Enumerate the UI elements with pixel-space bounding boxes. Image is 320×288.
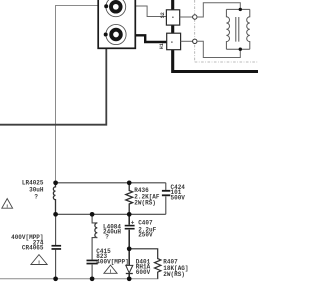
svg-text:CR4065: CR4065 [22,244,44,251]
node E (R436 bottom) [127,212,132,217]
svg-text:S2: S2 [160,12,166,18]
wire pin1 to degauss coil bottom [197,41,240,57]
capacitor CR4065 branch [55,214,57,245]
svg-text:!: ! [6,203,9,210]
svg-text:H1: H1 [159,43,165,49]
boundary dash-dot chassis line [195,0,258,62]
node H (C415 bottom) [90,276,95,281]
node degauss top [239,8,242,11]
wire rail upper (y183) [56,182,166,184]
wire thin from upper fuse to contact box [126,6,167,17]
fuse lower ring [106,24,126,44]
node I (D401 bottom) [127,276,132,281]
node G (bottom rail left) [53,276,58,281]
svg-text:2W(RS): 2W(RS) [134,199,156,206]
svg-text:30uH: 30uH [29,186,44,193]
warning triangle 3 [31,255,47,266]
wire thin top-left L (from fuse to LR4025 node) [56,6,105,183]
svg-text:400V[MPP]: 400V[MPP] [96,259,128,266]
wire thick from lower fuse to contact box [123,35,167,42]
node C (LR4025 bottom) [53,212,58,217]
node lower fuse terminal [104,33,108,37]
node upper fuse terminal [104,4,108,8]
node degauss bottom [239,48,242,51]
wire rail mid (y214) [56,213,166,215]
node B (R436 top) [127,180,132,185]
wire contact to pin 2 [180,16,193,18]
svg-text:!: ! [37,259,40,266]
node F (R407 tap) [127,246,132,251]
contact box H1 [167,33,181,50]
wire mid-left (degauss return to off-page left) [0,36,106,125]
fuse upper ring [106,0,126,17]
pin 2 connector circle [193,15,197,19]
inductor L408 branch wire [92,214,97,223]
node A (LR4025 top) [53,180,58,185]
node D (L408 top) [90,212,95,217]
svg-text:C407: C407 [138,219,153,226]
warning triangle 1 [2,199,13,210]
svg-text:600V: 600V [136,269,151,276]
svg-text:250V: 250V [138,232,153,239]
warning triangle 2 [104,265,117,275]
wire rail bottom (y279) [0,278,158,280]
wire pin2 to degauss coil top [197,3,240,17]
svg-text:+: + [131,219,135,226]
svg-text:500V: 500V [171,194,186,201]
wire thick AC line vertical + horizontal right [173,0,258,72]
resistor R436 [126,183,133,215]
wire contact to pin 1 [181,40,193,42]
pin 1 connector circle [193,39,197,43]
diode D401 [126,265,133,273]
wire main vertical node B segments [128,214,130,278]
contact box S2 [166,10,179,25]
svg-text:?: ? [105,234,109,241]
degauss coil L1 [226,9,249,49]
capacitor C415 [87,260,98,262]
inductor L408 [95,223,97,238]
svg-text:!: ! [109,268,112,275]
resistor R407 [129,249,161,279]
svg-text:2W(RS): 2W(RS) [163,271,185,278]
inductor LR4025 [53,183,55,215]
fuse holder box F1 [98,0,135,48]
capacitor C407 [125,225,135,227]
svg-text:?: ? [34,194,38,201]
capacitor C424 branch [165,183,167,215]
